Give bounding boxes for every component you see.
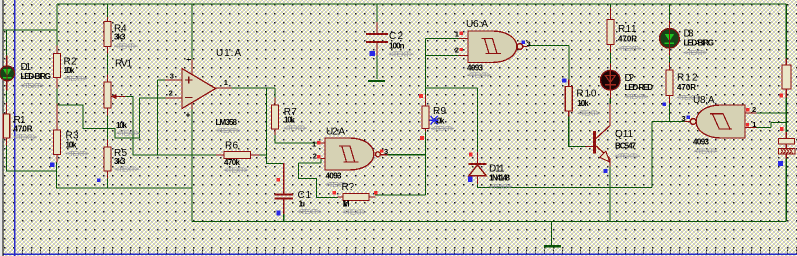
wire U6 input vertical xyxy=(425,39,427,96)
node marker (red) near C1 xyxy=(276,178,280,182)
node marker (red) near R9 top xyxy=(419,94,423,98)
resistor (right edge, unlabeled) xyxy=(782,59,791,97)
svg-text:<TEXT>: <TEXT> xyxy=(297,207,322,216)
wire input node to D11 cathode xyxy=(426,88,478,153)
wire RV1 to R5 xyxy=(107,115,109,140)
NAND gate U6:A xyxy=(455,19,531,80)
capacitor C2 xyxy=(366,22,414,58)
node marker (blue) right edge xyxy=(778,161,783,166)
wire ground rail xyxy=(192,221,786,223)
wire D? to Q11 collector xyxy=(609,98,611,104)
node marker (blue) near Q11 xyxy=(604,169,608,173)
svg-text:C2: C2 xyxy=(389,31,403,42)
svg-text:LED-RED: LED-RED xyxy=(625,83,654,92)
diode D11 xyxy=(469,153,513,191)
resistor R11 xyxy=(607,8,642,53)
node marker (blue) near D11 xyxy=(468,177,473,182)
svg-text:<TEXT>: <TEXT> xyxy=(117,129,141,138)
wire rail to op-amp V+ pin xyxy=(191,4,193,60)
wire D1 top drop xyxy=(6,30,8,56)
wire R2 bottom segment xyxy=(56,88,58,104)
wire D1 to R1 xyxy=(6,90,8,103)
svg-text:<TEXT>: <TEXT> xyxy=(284,124,308,133)
resistor R1 xyxy=(3,103,37,145)
node marker (red) near R? left xyxy=(332,191,336,195)
resistor R12 xyxy=(666,63,701,103)
ground symbol under C2 xyxy=(368,80,385,82)
wire ground symbol stub xyxy=(551,222,553,246)
svg-text:<TEXT>: <TEXT> xyxy=(467,71,492,80)
wire R11 to D? xyxy=(610,52,612,64)
svg-text:R?: R? xyxy=(342,182,355,193)
wire rail to C2 xyxy=(376,4,378,22)
svg-text:<TEXT>: <TEXT> xyxy=(684,48,708,57)
svg-text:2: 2 xyxy=(169,89,173,98)
svg-text:470R: 470R xyxy=(677,83,696,92)
svg-text:<TEXT>: <TEXT> xyxy=(66,149,90,158)
wire right edge V+ drop xyxy=(785,4,787,59)
wire right edge mid segment xyxy=(785,97,787,133)
resistor R5 xyxy=(104,140,140,178)
svg-text:U1:A: U1:A xyxy=(216,48,241,59)
svg-text:<TEXT>: <TEXT> xyxy=(114,42,138,51)
wire output to R7 top xyxy=(274,88,276,98)
wire R5 bottom xyxy=(107,178,109,188)
node marker (red) near R9 bottom xyxy=(420,136,424,140)
op-amp U1:A xyxy=(166,48,242,135)
wire U8 pin1 jog to right edge xyxy=(756,123,786,128)
node marker (blue) near R3 xyxy=(50,162,54,167)
wire rail to R2 top xyxy=(56,4,58,46)
resistor R7 xyxy=(272,98,308,135)
wire U8 output run xyxy=(611,122,686,188)
resistor R10 xyxy=(565,80,601,118)
svg-text:3: 3 xyxy=(384,147,388,156)
wire C1 bottom to ground rail xyxy=(283,214,285,222)
node marker (red) near D11 xyxy=(469,153,473,157)
svg-text:1: 1 xyxy=(455,30,459,39)
ground symbol on rail xyxy=(544,245,561,247)
svg-text:<TEXT>: <TEXT> xyxy=(343,208,368,217)
window panel edge xyxy=(0,0,3,256)
wire C2 to ground symbol xyxy=(376,55,378,79)
svg-text:1: 1 xyxy=(224,78,228,87)
component (right edge bottom, hatched, cut off) xyxy=(779,149,796,159)
resistor R9 xyxy=(422,95,455,133)
MARKERS xyxy=(50,51,783,216)
resistor R? xyxy=(338,182,375,217)
capacitor C1 xyxy=(275,164,322,217)
node marker (blue) near R12 bottom xyxy=(662,102,666,106)
svg-text:U8:A: U8:A xyxy=(693,95,715,106)
LED D3 (green) xyxy=(660,21,714,57)
svg-text:2: 2 xyxy=(313,151,317,160)
wire U8 pin2 to right edge xyxy=(756,112,786,114)
node marker (red) near R? right xyxy=(374,191,378,195)
border tick row xyxy=(14,249,797,253)
svg-text:<TEXT>: <TEXT> xyxy=(224,166,249,175)
wire rail to R11 xyxy=(610,4,612,8)
wire R7 bottom to U2 pin1 xyxy=(275,135,319,144)
wire D1 top horizontal xyxy=(3,29,58,31)
wire rail to R4 xyxy=(107,4,109,18)
sheet border left xyxy=(14,0,16,256)
resistor R3 xyxy=(54,104,90,162)
svg-text:1: 1 xyxy=(752,120,756,129)
svg-text:R6: R6 xyxy=(225,141,238,152)
svg-text:<TEXT>: <TEXT> xyxy=(489,182,513,191)
wire U6 pin2 stub run xyxy=(426,55,460,57)
wire U6 pin1 stub run xyxy=(426,38,460,40)
sheet border bottom xyxy=(0,254,797,256)
resistor R4 xyxy=(104,18,138,54)
svg-text:1: 1 xyxy=(312,139,316,148)
svg-text:<TEXT>: <TEXT> xyxy=(21,81,45,90)
potentiometer RV1 xyxy=(104,59,141,138)
NAND gate U2:A xyxy=(312,127,388,190)
wire rail to D3 xyxy=(668,4,670,21)
wire D11 anode to emitter node xyxy=(478,184,611,188)
wire RV1 wiper to R6 left xyxy=(125,97,217,156)
svg-text:3: 3 xyxy=(682,114,686,123)
svg-text:<TEXT>: <TEXT> xyxy=(618,44,642,53)
node marker (blue) near C2 xyxy=(370,51,375,56)
wire op-amp gnd pin down to ground rail xyxy=(191,109,193,222)
svg-text:<TEXT>: <TEXT> xyxy=(216,126,241,135)
wire V+ top rail xyxy=(57,3,786,5)
svg-text:3: 3 xyxy=(170,72,174,81)
wire R1 bottom to R3 bottom xyxy=(7,145,57,171)
svg-text:R11: R11 xyxy=(618,24,637,35)
LED D? (red) xyxy=(601,64,654,101)
wire right edge lower segment xyxy=(785,158,787,222)
svg-text:<TEXT>: <TEXT> xyxy=(694,147,718,156)
svg-text:R9: R9 xyxy=(433,106,446,117)
wire Q11 emitter to ground rail xyxy=(609,166,611,222)
svg-text:<TEXT>: <TEXT> xyxy=(615,152,641,161)
node marker (red) right edge lower xyxy=(780,127,783,131)
svg-text:<TEXT>: <TEXT> xyxy=(115,165,140,174)
transistor Q11 xyxy=(586,104,641,166)
wire U2 pin2 run to R? left xyxy=(299,159,339,198)
wire output drop to C1/R6 xyxy=(267,88,285,164)
wire op-amp +in stub xyxy=(158,79,166,81)
wire R10 bottom to Q11 base xyxy=(569,116,586,147)
component (right edge top, cut off) xyxy=(779,133,795,149)
svg-text:3: 3 xyxy=(527,40,531,49)
svg-text:U2:A: U2:A xyxy=(326,127,345,138)
LED D1 xyxy=(0,56,51,90)
wire op-amp output xyxy=(231,87,275,89)
svg-text:4093: 4093 xyxy=(693,138,710,147)
svg-text:R10: R10 xyxy=(576,89,596,100)
node marker (blue) near C1 xyxy=(277,211,281,216)
wire op-amp +in drop xyxy=(157,80,159,155)
svg-text:<TEXT>: <TEXT> xyxy=(389,50,414,59)
wire R6 right to output node xyxy=(259,154,267,156)
wire R12 bottom to U8 output node xyxy=(668,103,670,122)
svg-text:U6:A: U6:A xyxy=(466,19,488,30)
MARKERS xyxy=(0,0,1,1)
resistor R6 xyxy=(217,141,260,175)
wire R3 bottom to ground run xyxy=(57,162,193,188)
wire D3 to R12 xyxy=(668,55,670,63)
svg-text:Q11: Q11 xyxy=(615,129,633,140)
NAND gate U8:A (mirrored) xyxy=(682,95,757,156)
svg-text:<TEXT>: <TEXT> xyxy=(625,92,649,101)
svg-text:2: 2 xyxy=(455,46,459,55)
resistor R2 xyxy=(54,46,88,88)
svg-text:2: 2 xyxy=(752,105,756,114)
svg-text:R12: R12 xyxy=(677,73,698,84)
svg-text:LED-BIRG: LED-BIRG xyxy=(684,39,715,48)
svg-text:LED-BIRG: LED-BIRG xyxy=(21,72,52,81)
node marker (blue) near R5 xyxy=(97,178,101,182)
wire R2/R3 node to op-amp -in xyxy=(57,98,166,138)
wire U6 output to R10 xyxy=(527,46,569,81)
svg-text:470R: 470R xyxy=(618,35,637,44)
svg-text:3k3: 3k3 xyxy=(114,33,126,42)
svg-text:<TEXT>: <TEXT> xyxy=(64,74,88,83)
svg-text:RV1: RV1 xyxy=(115,59,132,70)
node marker (red) right edge upper xyxy=(779,93,783,97)
svg-text:BC547: BC547 xyxy=(615,142,637,151)
node marker (blue) near R10 xyxy=(562,78,566,82)
wire R4 to RV1 xyxy=(107,53,109,75)
svg-text:<TEXT>: <TEXT> xyxy=(577,109,601,118)
wire R? right lead up to R9 bottom xyxy=(375,131,426,195)
svg-text:<TEXT>: <TEXT> xyxy=(14,133,38,142)
svg-text:10k: 10k xyxy=(577,99,589,108)
wire U2 output to R9 node xyxy=(387,154,426,156)
svg-text:<TEXT>: <TEXT> xyxy=(431,124,455,133)
